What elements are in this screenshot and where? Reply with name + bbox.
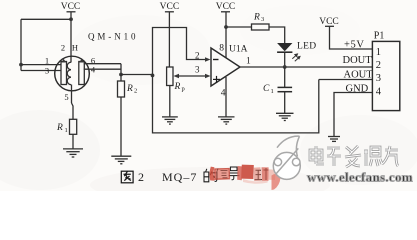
wire VCC to R3 <box>226 26 252 28</box>
junction dot sensor output <box>119 73 123 77</box>
potentiometer Rp <box>167 67 185 93</box>
wire op-amp pin 8 <box>225 27 227 58</box>
connector P1 <box>372 31 399 111</box>
svg-text:QM-N10: QM-N10 <box>88 32 138 42</box>
svg-text:1: 1 <box>271 88 274 95</box>
red highlight block over 信 <box>215 169 229 179</box>
wire VCC stem to sensor top pin <box>70 12 72 63</box>
svg-text:H: H <box>72 43 78 53</box>
svg-text:3: 3 <box>195 65 200 75</box>
arrow into op-amp pin 2 <box>205 57 211 61</box>
svg-text:2: 2 <box>61 43 65 53</box>
svg-text:C: C <box>263 84 270 94</box>
junction dot LED/C1 node <box>283 65 287 69</box>
caption 图 2 (figure label) <box>121 171 133 183</box>
wire left vertical branch <box>20 19 22 70</box>
svg-text:1: 1 <box>246 57 251 67</box>
wire C1 top <box>284 67 286 87</box>
ground below C1 <box>276 113 294 120</box>
op-amp U1A <box>195 44 251 99</box>
svg-text:MQ–7: MQ–7 <box>162 170 197 184</box>
svg-text:1: 1 <box>45 56 49 66</box>
svg-text:p: p <box>182 86 185 93</box>
wire VCC4 to +5V line <box>330 26 373 49</box>
wire sensor pin 5 to R1 <box>71 85 73 104</box>
svg-text:R: R <box>126 84 133 94</box>
svg-text:3: 3 <box>261 16 264 23</box>
wire inverting input loop <box>153 28 207 76</box>
svg-text:2: 2 <box>376 60 381 71</box>
red highlight block over 调 <box>241 165 253 179</box>
wire LED cathode to output line <box>284 53 286 67</box>
red highlight stroke over right of 的 <box>210 167 215 181</box>
caption 信 strokes under red <box>217 169 228 180</box>
ground below R1 <box>63 149 83 157</box>
node VCC (connector supply) <box>319 17 339 27</box>
wire op-amp pin 4 to ground <box>225 77 227 117</box>
svg-text:www.elecfans.com: www.elecfans.com <box>307 170 413 185</box>
LED <box>277 42 316 62</box>
svg-text:U1A: U1A <box>229 45 248 55</box>
wire to sensor pin 1 <box>21 64 62 66</box>
svg-text:4: 4 <box>376 87 382 98</box>
svg-text:VCC: VCC <box>319 17 339 27</box>
capacitor C1 <box>263 84 292 95</box>
wire AOUT line <box>319 79 373 81</box>
caption 理 strokes (partially visible) <box>255 168 269 180</box>
svg-text:4: 4 <box>221 89 226 99</box>
resistor R1 <box>56 119 77 134</box>
ground below Rp <box>162 117 178 124</box>
svg-text:DOUT: DOUT <box>343 55 373 66</box>
wire R2 top <box>120 75 122 82</box>
svg-text:R: R <box>253 13 260 23</box>
svg-text:+5V: +5V <box>344 40 365 51</box>
svg-text:5: 5 <box>64 92 68 102</box>
svg-text:2: 2 <box>138 170 144 184</box>
wire op-amp output to DOUT <box>240 66 372 68</box>
node VCC (divider supply) <box>160 2 180 12</box>
svg-text:2: 2 <box>195 51 200 61</box>
svg-text:3: 3 <box>45 66 49 76</box>
red highlight stroke over right of 号 <box>237 166 242 180</box>
wire sensor pin 4 <box>84 68 121 70</box>
node VCC (sensor supply) <box>61 2 81 12</box>
svg-text:P1: P1 <box>374 31 385 42</box>
wire AOUT return (down and right) <box>153 75 319 132</box>
ground below op-amp <box>218 117 235 124</box>
resistor R3 <box>252 13 270 31</box>
svg-text:1: 1 <box>65 127 68 134</box>
svg-text:VCC: VCC <box>61 2 81 12</box>
watermark logo circle <box>273 136 300 179</box>
wire Rp wiper to op-amp pin 3 <box>178 75 207 77</box>
svg-text:1: 1 <box>376 47 381 58</box>
red highlight marks over 理 <box>254 167 261 181</box>
wire GND line to ground <box>334 93 372 137</box>
junction dot pin1 branch <box>19 63 23 67</box>
svg-text:VCC: VCC <box>160 2 180 12</box>
svg-text:8: 8 <box>219 44 224 54</box>
svg-text:3: 3 <box>376 73 381 84</box>
wire sensor output <box>121 74 153 76</box>
wire sensor pin 6 <box>84 63 121 65</box>
wire R3 to LED <box>269 27 285 43</box>
wire pins 4-6 joining bar <box>120 64 122 75</box>
caption 的 (glyph) <box>204 169 217 182</box>
red highlight mark over 电 <box>268 169 275 180</box>
svg-text:R: R <box>174 82 181 92</box>
wire VCC3 stem <box>225 12 227 27</box>
ground below GND <box>328 137 340 142</box>
wire R2 to ground <box>120 97 122 156</box>
junction dot VCC3 <box>224 25 228 29</box>
wire Rp bottom to ground <box>169 86 171 117</box>
ground below R2 <box>111 156 131 164</box>
wire C1 to ground <box>284 92 286 113</box>
svg-text:VCC: VCC <box>216 2 236 12</box>
junction dot comparator input node <box>151 74 155 78</box>
red blob near logo <box>272 174 281 190</box>
caption 号 (partially visible) <box>229 167 240 180</box>
arrow into op-amp pin 3 <box>205 74 211 78</box>
svg-text:LED: LED <box>297 42 316 52</box>
red smear below caption <box>243 179 268 184</box>
svg-text:2: 2 <box>134 88 137 95</box>
sensor QM-N10 <box>45 32 139 103</box>
wire to sensor pin 3 <box>21 70 62 72</box>
svg-text:R: R <box>56 123 63 133</box>
wire R1 to ground <box>72 134 74 148</box>
resistor R2 <box>118 81 138 97</box>
junction dot on VCC wire <box>69 17 73 21</box>
wire VCC to Rp <box>168 12 170 67</box>
node VCC (op-amp supply) <box>216 2 236 12</box>
wire VCC to left branch <box>21 18 71 20</box>
